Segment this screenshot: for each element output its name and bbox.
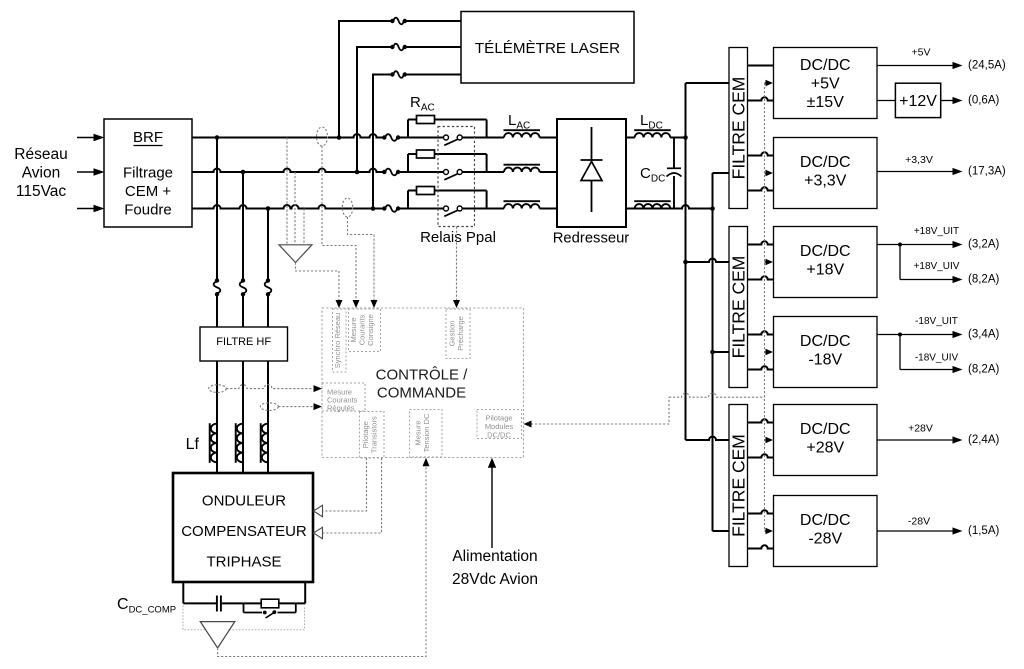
svg-text:+28V: +28V: [908, 423, 933, 435]
svg-text:Redresseur: Redresseur: [553, 231, 630, 247]
svg-text:(8,2A): (8,2A): [968, 273, 999, 285]
svg-text:FILTRE HF: FILTRE HF: [216, 336, 271, 348]
svg-text:115Vac: 115Vac: [16, 183, 67, 200]
svg-text:+18V: +18V: [806, 262, 844, 279]
svg-text:Lf: Lf: [186, 436, 200, 453]
svg-text:CEM +: CEM +: [125, 183, 172, 200]
svg-text:DC/DC: DC/DC: [800, 333, 851, 350]
svg-text:Tension DC: Tension DC: [422, 413, 431, 452]
svg-text:+3,3V: +3,3V: [804, 173, 847, 190]
svg-text:Régulés: Régulés: [327, 403, 355, 412]
svg-text:(0,6A): (0,6A): [968, 94, 999, 106]
svg-text:Consigne: Consigne: [366, 314, 375, 346]
svg-text:COMPENSATEUR: COMPENSATEUR: [181, 523, 307, 540]
svg-text:Foudre: Foudre: [124, 202, 172, 219]
svg-text:-18V_UIV: -18V_UIV: [915, 353, 959, 364]
svg-text:+5V: +5V: [811, 76, 840, 93]
svg-text:+18V_UIT: +18V_UIT: [914, 226, 959, 237]
svg-text:+3,3V: +3,3V: [905, 154, 933, 166]
svg-text:-28V: -28V: [808, 531, 842, 548]
svg-text:+12V: +12V: [899, 93, 937, 110]
svg-text:DC/DC: DC/DC: [800, 57, 851, 74]
svg-text:+5V: +5V: [912, 47, 931, 59]
svg-text:Avion: Avion: [22, 165, 61, 182]
svg-text:FILTRE CEM: FILTRE CEM: [728, 77, 748, 180]
svg-text:Relais Ppal: Relais Ppal: [420, 229, 496, 246]
svg-text:ONDULEUR: ONDULEUR: [202, 493, 286, 510]
svg-text:FILTRE CEM: FILTRE CEM: [728, 256, 748, 359]
svg-text:+18V_UIV: +18V_UIV: [914, 261, 960, 272]
svg-text:(1,5A): (1,5A): [968, 525, 999, 537]
svg-text:28Vdc Avion: 28Vdc Avion: [452, 571, 538, 588]
svg-text:TÉLÉMÈTRE LASER: TÉLÉMÈTRE LASER: [475, 40, 620, 57]
svg-text:DC/DC: DC/DC: [800, 243, 851, 260]
svg-text:(3,4A): (3,4A): [968, 328, 999, 340]
svg-text:-18V_UIT: -18V_UIT: [915, 316, 958, 327]
svg-text:TRIPHASE: TRIPHASE: [206, 554, 281, 571]
svg-text:Réseau: Réseau: [14, 146, 67, 163]
svg-text:(2,4A): (2,4A): [968, 434, 999, 446]
svg-text:Précharge: Précharge: [456, 316, 465, 351]
svg-text:(8,2A): (8,2A): [968, 363, 999, 375]
svg-text:(24,5A): (24,5A): [968, 59, 1006, 71]
svg-text:DC/DC: DC/DC: [800, 421, 851, 438]
svg-text:COMMANDE: COMMANDE: [377, 385, 466, 402]
svg-text:Filtrage: Filtrage: [123, 165, 173, 182]
svg-text:DC/DC: DC/DC: [800, 512, 851, 529]
svg-text:±15V: ±15V: [807, 94, 845, 111]
svg-text:-18V: -18V: [808, 352, 842, 369]
svg-text:DC/DC: DC/DC: [487, 431, 511, 440]
svg-text:Synchro Réseau: Synchro Réseau: [333, 313, 342, 368]
svg-text:(3,2A): (3,2A): [968, 238, 999, 250]
svg-text:CONTRÔLE /: CONTRÔLE /: [376, 367, 469, 384]
svg-text:+28V: +28V: [806, 440, 844, 457]
svg-text:BRF: BRF: [133, 129, 163, 146]
svg-text:FILTRE CEM: FILTRE CEM: [728, 434, 748, 537]
svg-text:-28V: -28V: [908, 516, 930, 528]
svg-text:DC/DC: DC/DC: [800, 154, 851, 171]
svg-text:(17,3A): (17,3A): [968, 165, 1006, 177]
svg-text:Transistors: Transistors: [370, 416, 379, 453]
svg-text:Alimentation: Alimentation: [452, 548, 537, 565]
